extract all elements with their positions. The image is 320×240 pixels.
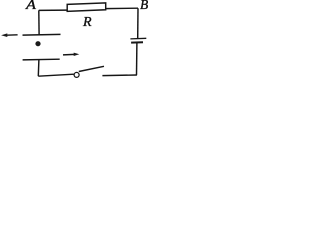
wire B corner down to battery xyxy=(137,8,139,38)
battery short plate xyxy=(131,41,143,43)
wire node A down to upper plate xyxy=(38,10,40,34)
node A label xyxy=(26,0,36,12)
switch lever xyxy=(79,66,104,71)
battery long plate xyxy=(130,37,146,40)
lower plate xyxy=(23,58,60,61)
resistor R1 box xyxy=(67,3,106,12)
switch pivot circle xyxy=(74,72,79,77)
left arrow xyxy=(1,33,18,37)
upper plate xyxy=(23,33,61,36)
particle dot xyxy=(35,41,40,46)
wire battery to bottom-right corner xyxy=(136,43,138,75)
resistor value label R xyxy=(83,16,92,30)
wire resistor to B corner xyxy=(106,7,138,9)
bottom wire right segment xyxy=(102,74,136,77)
wire A corner to resistor xyxy=(39,9,67,11)
node B label xyxy=(140,0,148,12)
bottom wire left segment xyxy=(38,74,74,76)
wire bottom-left corner up to lower plate xyxy=(37,60,40,77)
right arrow xyxy=(63,53,79,56)
